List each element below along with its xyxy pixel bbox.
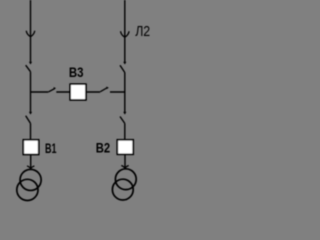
wire: bus tie, breaker B3 to right bus disconnector	[87, 91, 101, 93]
disconnector QS1 blade	[26, 65, 31, 72]
arrow: left feeder incoming-flow arrow	[26, 31, 35, 37]
svg-text:В3: В3	[69, 64, 84, 80]
wire: left feeder to breaker B1	[30, 123, 32, 139]
breaker B3 box	[70, 84, 86, 100]
svg-text:В2: В2	[96, 140, 111, 156]
bus disconnector QS6 blade	[100, 88, 107, 92]
wire: B2 to transformer T2	[124, 155, 126, 168]
wire: right feeder to breaker B2	[124, 123, 126, 139]
disconnector QS2 blade	[120, 65, 125, 72]
arrow into transformer T2	[121, 166, 128, 169]
wire: left feeder upper segment	[30, 0, 32, 62]
wire: B1 to transformer T1	[30, 155, 32, 168]
disconnector QS3 (left feeder, lower): fixed-contact arrowhead	[29, 112, 32, 115]
transformer T1 secondary winding	[17, 179, 38, 200]
svg-text:Л2: Л2	[135, 23, 150, 40]
wire: bus tie, left feeder to left bus disconnector	[31, 91, 49, 93]
wire: bus tie, left disconnector to breaker B3	[56, 91, 70, 93]
arrow: right feeder incoming-flow arrow	[121, 31, 130, 37]
disconnector QS4 blade	[120, 117, 125, 124]
disconnector QS1 (left feeder, upper): fixed-contact arrowhead	[29, 62, 32, 65]
wire: right feeder upper segment	[124, 0, 126, 62]
breaker B2 box	[117, 140, 133, 155]
disconnector QS2 (right feeder, upper): fixed-contact arrowhead	[123, 62, 126, 65]
bus disconnector QS6 arrowhead	[106, 87, 109, 90]
wire: right feeder middle segment	[124, 73, 126, 114]
disconnector QS4 (right feeder, lower): fixed-contact arrowhead	[123, 112, 126, 115]
wire: left feeder middle segment (switch to below bus)	[30, 72, 32, 114]
svg-text:В1: В1	[45, 140, 57, 156]
bus disconnector QS5 blade	[48, 89, 54, 92]
arrow into transformer T1	[27, 166, 34, 169]
bus disconnector QS5 arrowhead	[54, 87, 57, 90]
wire: bus tie, right disconnector to right feeder	[110, 91, 125, 93]
breaker B1 box	[23, 140, 38, 155]
transformer T2 secondary winding	[112, 179, 133, 200]
transformer T2 primary winding	[115, 169, 136, 190]
disconnector QS3 blade	[26, 116, 31, 124]
transformer T1 primary winding	[20, 169, 41, 190]
